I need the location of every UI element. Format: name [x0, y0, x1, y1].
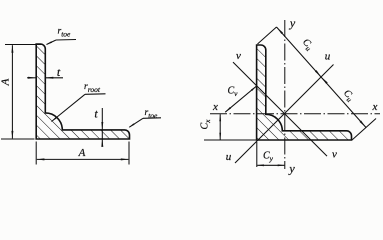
left figure: angle section outline with hatching [36, 44, 129, 139]
svg-text:Cu: Cu [299, 37, 315, 53]
v axis with labels v, v [233, 62, 327, 156]
svg-text:u: u [226, 151, 232, 163]
svg-text:x: x [212, 101, 218, 113]
svg-text:rtoe: rtoe [58, 27, 72, 39]
C_x dimension (left side) [204, 139, 257, 141]
svg-text:A: A [0, 78, 12, 86]
dimension t (horizontal leg thickness) [101, 108, 103, 145]
C_v dimension (arrow to back face along v) [225, 86, 257, 112]
C_u dimension line along v direction with extension lines [258, 27, 277, 44]
leader and label r_toe (top of vertical leg) [56, 39, 76, 42]
svg-text:v: v [332, 149, 337, 161]
svg-text:t: t [57, 65, 61, 79]
svg-text:y: y [288, 162, 295, 176]
leader and label r_root (fillet radius) [85, 93, 106, 96]
u axis with labels u, u [235, 65, 334, 164]
svg-text:Cx: Cx [200, 119, 213, 130]
right figure: angle section outline with hatching [257, 45, 352, 140]
svg-text:Cv: Cv [228, 86, 239, 99]
svg-text:A: A [78, 147, 86, 159]
svg-text:t: t [94, 107, 98, 121]
svg-text:u: u [325, 51, 331, 63]
x axis (dash-dot) with labels x, x [210, 113, 380, 115]
svg-text:y: y [289, 16, 296, 30]
dimension t (vertical leg thickness) [27, 77, 36, 79]
leader and label r_toe (end of horizontal leg) [143, 117, 161, 120]
svg-text:Cy: Cy [263, 151, 274, 164]
svg-text:x: x [372, 101, 378, 113]
svg-text:rroot: rroot [84, 82, 101, 94]
dimension A (vertical, left) [5, 44, 42, 46]
svg-text:v: v [236, 50, 241, 62]
y axis (dash-dot) with labels y, y [284, 20, 286, 169]
C_y dimension (bottom) [256, 142, 258, 167]
dimension A (horizontal, bottom) [35, 142, 37, 165]
